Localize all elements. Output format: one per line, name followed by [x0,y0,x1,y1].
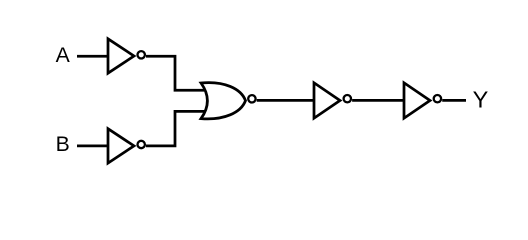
wire U5 output to Y [442,99,466,102]
svg-text:A: A [56,44,71,67]
inverter U2 triangle [108,129,134,163]
svg-text:Y: Y [473,87,489,113]
NOR gate U3 bubble [248,95,255,102]
inverter U4 bubble [344,95,351,102]
wire U1 output to NOR input 1 [146,56,208,90]
svg-text:B: B [56,133,70,156]
inverter U1 triangle [108,39,134,73]
inverter U2 bubble [138,141,145,148]
wire U3 output to inverter U4 [257,99,314,102]
inverter U4 triangle [314,83,340,118]
inverter U1 bubble [138,51,145,58]
wire A to inverter U1 [77,55,108,58]
wire U4 output to inverter U5 [352,99,404,102]
inverter U5 bubble [434,95,441,102]
inverter U5 triangle [404,83,430,118]
wire B to inverter U2 [77,145,108,148]
wire U2 output to NOR input 2 [146,111,208,145]
NOR gate U3 body [201,83,246,119]
